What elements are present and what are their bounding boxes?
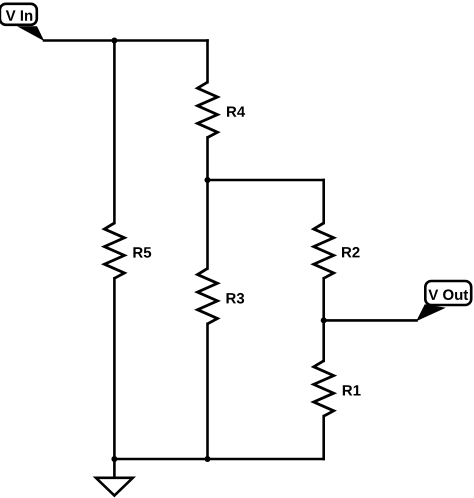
label R1 [343,385,361,395]
label R5 [133,247,151,257]
ground [96,478,133,496]
wire: R4 bottom to node at y=180 [206,138,209,181]
resistor R3 [198,269,218,324]
wire: R1 bottom down to bottom rail [322,416,325,459]
wire: ground stub [113,459,116,478]
wire: left branch junction down to R5 top [113,41,116,224]
wire: R3 bottom down to bottom rail [206,324,209,459]
wire: node at y=180 across to right branch [208,179,324,182]
wire: R5 bottom down to ground node [113,278,116,459]
junction dot: bottom rail middle [205,456,211,462]
label R2 [342,247,360,258]
junction dot: V Out node [321,317,327,323]
resistor R5 [104,223,124,278]
wire: node at y=180 down to R3 top [206,180,209,269]
wire: V Out node across to V Out tail [324,319,417,322]
wire: right branch corner down to R2 top [322,180,325,223]
net flag V Out [416,281,471,321]
net flag V In [0,4,44,41]
junction dot: R4/R3/R2 node [205,177,211,183]
junction dot: V In node on left branch [111,38,117,44]
wire top: V In tail to left-branch junction [44,39,114,42]
resistor R2 [314,223,334,278]
wire: R2 bottom to V Out node [322,278,325,320]
label R3 [227,293,245,304]
resistor R4 [198,82,218,137]
label R4 [227,107,245,117]
junction dot: bottom rail left (ground node) [111,456,117,462]
wire: bottom rail [114,458,323,461]
wire: V Out node down to R1 top [322,320,325,360]
wire: middle branch corner down to R4 top [206,41,209,83]
wire top: junction to middle branch corner [114,39,207,42]
resistor R1 [314,361,334,416]
